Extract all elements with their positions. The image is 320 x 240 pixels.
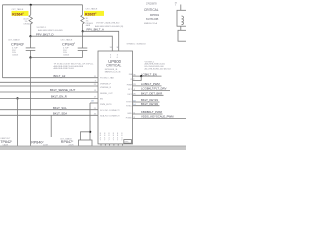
svg-text:LCBKLT_PWM: LCBKLT_PWM: [141, 82, 160, 86]
svg-text:CRITICAL: CRITICAL: [106, 64, 121, 68]
wire net BKLT_SDA: [0, 114, 98, 116]
wire net PPV_BKLT_D to pin 33: [31, 36, 113, 51]
pin names right: [126, 74, 134, 119]
svg-text:BKLT_KEY#2: BKLT_KEY#2: [141, 102, 158, 106]
pin numbers right: [133, 74, 136, 119]
svg-text:VDDS_KEYSCALE_PWM: VDDS_KEYSCALE_PWM: [141, 115, 174, 119]
svg-text:MMKR/C12-8_/B: MMKR/C12-8_/B: [105, 72, 121, 74]
svg-text:BKLT_SENSE_OUT: BKLT_SENSE_OUT: [50, 88, 76, 92]
wire corner into RP847 box: [81, 132, 91, 140]
svg-text:PWM: PWM: [127, 85, 132, 87]
svg-text:CKT_TABLE: CKT_TABLE: [12, 8, 24, 11]
svg-text:SYMBOL: 35384163: SYMBOL: 35384163: [127, 43, 147, 45]
svg-text:CKT_TABLE: CKT_TABLE: [86, 8, 98, 11]
resistor R2664: [12, 5, 33, 36]
wire net LCBKLT_PWM: [133, 85, 162, 87]
svg-text:KBDBKLT_PWM: KBDBKLT_PWM: [141, 110, 163, 114]
wire RP847 vertical: [50, 115, 52, 137]
svg-text:SCL /NO CONNECT/: SCL /NO CONNECT/: [100, 110, 120, 112]
wire net BKLT_SCL: [0, 109, 98, 111]
svg-text:CR0603: CR0603: [23, 23, 31, 25]
connector DP801 box: [175, 3, 188, 31]
note text block: [54, 64, 95, 71]
svg-text:CP8432: CP8432: [11, 42, 25, 47]
svg-text:BKLT_EN_R: BKLT_EN_R: [51, 95, 67, 99]
wire top rail: [3, 4, 83, 6]
pin names left: [100, 77, 120, 118]
svg-text:8178120B: 8178120B: [146, 17, 158, 21]
node junction PPV_BKLT_D: [29, 35, 31, 37]
wire left vertical to RP840: [30, 58, 32, 147]
connector lower box: [178, 30, 187, 41]
resistor RP847: [60, 138, 74, 147]
svg-text:SENSE_OUT: SENSE_OUT: [100, 93, 113, 95]
IC UP800 box: [98, 51, 133, 144]
resistor RP840: [31, 140, 48, 146]
svg-text:VSENSE_N: VSENSE_N: [100, 87, 112, 89]
svg-text:BKLT_DET_BKR: BKLT_DET_BKR: [141, 91, 162, 95]
wire net LCBKLT_EN: [133, 75, 162, 77]
wire net BKLT_A2: [3, 77, 99, 79]
node junction rail R2664: [30, 4, 32, 6]
wire net VDDS_KEYSCALE_PWM: [133, 118, 187, 120]
wire net LCGBKLT_FLT_DRV: [133, 90, 171, 92]
svg-text:A0B-SEB-SSBC3-000: A0B-SEB-SSBC3-000: [54, 67, 75, 70]
bottom gray band: [0, 146, 186, 150]
svg-text:DP801: DP801: [150, 13, 160, 17]
svg-text:MMKR-CI2-A: MMKR-CI2-A: [144, 22, 158, 25]
wire net BKLT_DET_BKR: [133, 94, 164, 96]
node junction RP847 corner: [89, 131, 91, 133]
svg-text:BKLT_SDA: BKLT_SDA: [53, 112, 67, 116]
text block right of IC: [145, 61, 172, 70]
wire net BKLT_EN_R: [0, 97, 98, 99]
capacitor CP843 (left): [8, 36, 35, 57]
svg-text:VGTXB*-1: VGTXB*-1: [37, 27, 48, 29]
svg-text:CP8432: CP8432: [62, 41, 76, 46]
node junction LCBKLT_EN: [140, 75, 142, 77]
wire left loop vertical: [2, 5, 4, 78]
wire net BKLT_KEY#1: [133, 101, 160, 103]
svg-text:GND: GND: [127, 113, 132, 115]
wire net BKLT_SENSE_OUT: [0, 91, 98, 93]
svg-text:LCGBKLT/FLT_DRV: LCGBKLT/FLT_DRV: [141, 87, 167, 91]
svg-text:EN: EN: [100, 99, 103, 101]
svg-text:CRITICAL: CRITICAL: [144, 8, 159, 12]
svg-text:PO BKLT_TAB: PO BKLT_TAB: [100, 77, 114, 80]
wire caps bottom: [31, 57, 83, 59]
wire net VSENSE_P: [0, 81, 98, 83]
svg-text:A0-CHB-810M1-000 (B) 502: A0-CHB-810M1-000 (B) 502: [145, 68, 172, 71]
svg-text:37620878: 37620878: [146, 2, 157, 5]
net label PPV_BKLT_A: [87, 22, 124, 32]
svg-text:SDA /NO CONNECT/: SDA /NO CONNECT/: [100, 114, 120, 117]
svg-text:BKLT_A2: BKLT_A2: [54, 74, 66, 78]
capacitor CP843 (right): [61, 31, 88, 57]
wire PWM_FETS stub: [90, 102, 98, 104]
node junction PPV_BKLT_A: [82, 30, 84, 32]
resistor R2665: [81, 5, 104, 32]
pin numbers left: [91, 76, 97, 116]
svg-text:PGND: PGND: [126, 117, 133, 119]
svg-text:PPV_BKLT_A: PPV_BKLT_A: [87, 28, 104, 32]
svg-text:RTSY: RTSY: [126, 102, 132, 104]
node junction caps bottom: [29, 56, 31, 58]
svg-text:VSENSE_P: VSENSE_P: [100, 83, 112, 85]
wire net KBDBKLT_PWM: [133, 113, 163, 115]
svg-text:LCBKLT_EN: LCBKLT_EN: [141, 72, 157, 76]
wire net BKLT_KEY#2: [133, 105, 160, 107]
svg-text:PWM_FETS: PWM_FETS: [100, 104, 112, 106]
wire TP842 vertical: [17, 98, 19, 146]
node junction BKLT_EN_R / TP842 tap: [16, 97, 18, 99]
svg-text:8478400B_/B: 8478400B_/B: [105, 69, 118, 71]
net label PPV_BKLT_D: [36, 27, 64, 36]
testpoint TP842: [0, 138, 13, 147]
pin label EP bottom right: [124, 140, 132, 144]
IC bottom pin numbers and stubs: [100, 133, 124, 146]
wire net VSENSE_N: [0, 85, 98, 87]
svg-text:RTSC: RTSC: [126, 105, 132, 107]
svg-text:VGTXB*-1 A0B-CHB-810: VGTXB*-1 A0B-CHB-810: [96, 22, 120, 25]
svg-text:C0603: C0603: [63, 55, 70, 57]
text block DP801 top right: [144, 2, 160, 25]
wire PWM_FETS drop: [89, 103, 91, 140]
svg-text:PPV_BKLT_D: PPV_BKLT_D: [36, 32, 54, 36]
svg-text:C0603: C0603: [12, 55, 19, 57]
wire net PPV_BKLT_A to pin 30: [83, 31, 119, 51]
wire EN jog: [133, 76, 142, 80]
svg-text:DET: DET: [128, 94, 133, 96]
svg-text:BKLT_SCL: BKLT_SCL: [53, 106, 67, 110]
resistor RP847 box: [79, 140, 93, 146]
